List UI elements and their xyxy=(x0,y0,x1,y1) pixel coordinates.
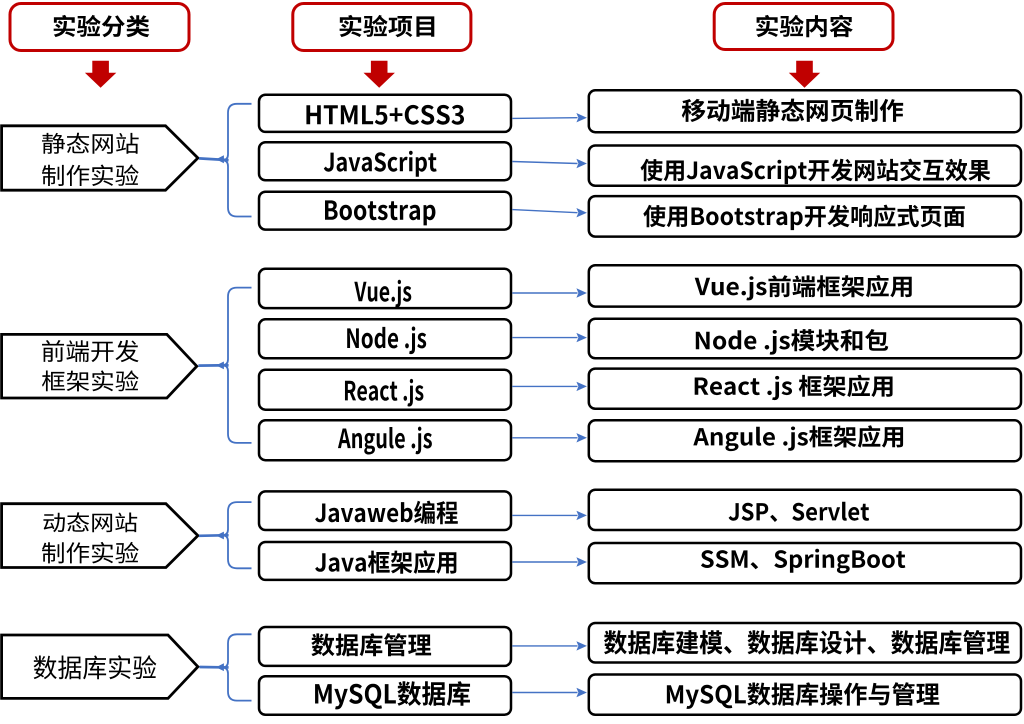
right box 数据库建模、数据库设计、数据库管理 xyxy=(589,623,1021,663)
middle box text Bootstrap xyxy=(325,200,435,225)
arrow Bootstrap -> 使用Bootstrap开发响应式页面 xyxy=(512,208,587,217)
pentagon 前端开发框架实验 xyxy=(2,334,197,398)
arrow JavaScript -> 使用JavaScript开发网站交互效果 xyxy=(512,159,587,168)
middle box text MySQL数据库 xyxy=(315,681,470,709)
right box text Node .js模块和包 xyxy=(696,329,888,355)
right box text JSP、Servlet xyxy=(729,502,870,522)
header box 实验分类 xyxy=(10,4,189,51)
connector pentagon4-brace xyxy=(200,663,229,671)
right box Node .js模块和包 xyxy=(589,319,1021,359)
middle box Angule .js xyxy=(259,420,511,460)
middle box Node .js xyxy=(259,319,511,358)
brace group3 xyxy=(222,502,251,568)
pentagon text 静态网站 xyxy=(42,133,139,154)
arrow Javaweb编程 -> JSP、Servlet xyxy=(512,511,587,520)
pentagon text 动态网站 xyxy=(43,512,137,532)
header text 实验项目 xyxy=(340,15,435,37)
right box text React .js 框架应用 xyxy=(695,375,893,400)
right box JSP、Servlet xyxy=(589,490,1021,530)
header text 实验分类 xyxy=(54,15,150,37)
right box React .js 框架应用 xyxy=(589,369,1021,409)
right box Vue.js前端框架应用 xyxy=(589,265,1021,306)
middle box MySQL数据库 xyxy=(259,676,511,715)
middle box Java框架应用 xyxy=(259,542,511,580)
red arrow under 实验分类 xyxy=(85,61,116,88)
middle box text Java框架应用 xyxy=(315,550,456,574)
header text 实验内容 xyxy=(756,15,852,37)
right box 使用Bootstrap开发响应式页面 xyxy=(589,196,1021,237)
arrow Node .js -> Node .js模块和包 xyxy=(512,333,587,342)
brace group1 xyxy=(222,104,251,217)
middle box text Angule .js xyxy=(338,427,432,455)
connector pentagon1-brace xyxy=(199,155,229,163)
pentagon text 前端开发 xyxy=(42,340,139,362)
pentagon text 制作实验 xyxy=(42,165,139,187)
middle box React .js xyxy=(259,370,511,410)
pentagon text 制作实验 xyxy=(42,542,139,564)
brace group4 xyxy=(222,634,251,700)
right box text MySQL数据库操作与管理 xyxy=(667,682,939,709)
red arrow under 实验内容 xyxy=(789,61,820,88)
right box MySQL数据库操作与管理 xyxy=(589,675,1021,715)
arrow 数据库管理 -> 数据库建模设计管理 xyxy=(512,641,587,650)
pentagon text 框架实验 xyxy=(42,370,139,391)
arrow Vue.js -> Vue.js前端框架应用 xyxy=(512,288,587,297)
middle box 数据库管理 xyxy=(259,627,511,666)
pentagon text 数据库实验 xyxy=(34,655,157,679)
arrow Java框架应用 -> SSM、SpringBoot xyxy=(512,557,587,566)
right box text Angule .js框架应用 xyxy=(693,425,903,451)
arrow Angule .js -> Angule .js框架应用 xyxy=(512,433,587,442)
right box text 数据库建模、数据库设计、数据库管理 xyxy=(604,630,1010,655)
header box 实验内容 xyxy=(714,4,893,50)
middle box Javaweb编程 xyxy=(259,491,511,530)
pentagon 静态网站制作实验 xyxy=(2,126,198,190)
brace group2 xyxy=(222,288,251,443)
pentagon 数据库实验 xyxy=(2,635,198,698)
middle box text 数据库管理 xyxy=(311,633,431,656)
right box SSM、SpringBoot xyxy=(589,543,1021,583)
right box text 使用Bootstrap开发响应式页面 xyxy=(643,205,965,231)
arrow HTML5+CSS3 -> 移动端静态网页制作 xyxy=(512,113,587,122)
connector pentagon2-brace xyxy=(198,362,228,370)
middle box text Vue.js xyxy=(354,280,411,308)
right box 使用JavaScript开发网站交互效果 xyxy=(589,146,1021,186)
middle box text Node .js xyxy=(347,327,426,355)
middle box text HTML5+CSS3 xyxy=(306,105,464,125)
middle box text Javaweb编程 xyxy=(315,501,458,525)
right box Angule .js框架应用 xyxy=(589,420,1021,461)
connector pentagon3-brace xyxy=(199,532,229,540)
middle box text React .js xyxy=(345,379,423,407)
middle box Bootstrap xyxy=(259,192,511,230)
middle box Vue.js xyxy=(259,269,511,308)
middle box text JavaScript xyxy=(324,151,437,177)
red arrow under 实验项目 xyxy=(364,61,395,88)
right box text SSM、SpringBoot xyxy=(701,549,905,574)
pentagon 动态网站制作实验 xyxy=(2,504,198,568)
right box text 移动端静态网页制作 xyxy=(682,99,903,122)
right box text 使用JavaScript开发网站交互效果 xyxy=(640,159,990,185)
arrow React .js -> React .js 框架应用 xyxy=(512,382,587,391)
middle box HTML5+CSS3 xyxy=(259,95,511,132)
middle box JavaScript xyxy=(259,142,511,180)
right box text Vue.js前端框架应用 xyxy=(695,275,912,300)
header box 实验项目 xyxy=(293,4,471,51)
arrow MySQL数据库 -> MySQL数据库操作与管理 xyxy=(512,688,587,697)
right box 移动端静态网页制作 xyxy=(589,90,1021,132)
